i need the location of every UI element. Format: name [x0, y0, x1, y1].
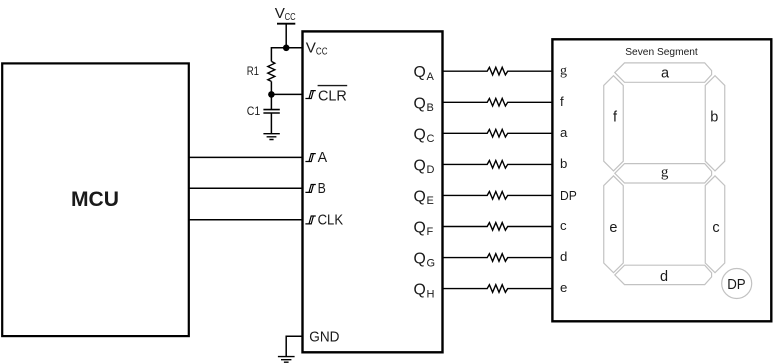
svg-text:CC: CC — [316, 46, 328, 58]
svg-text:B: B — [427, 102, 434, 114]
svg-text:Q: Q — [414, 95, 426, 112]
wire R1 to CLR junction — [270, 81, 272, 94]
resistor row 8 (QH to segment e) — [443, 285, 554, 293]
wire C1 to ground — [270, 113, 272, 134]
resistor row 5 (QE to segment DP) — [443, 192, 554, 200]
svg-text:Q: Q — [414, 282, 426, 299]
VCC supply symbol — [277, 23, 295, 25]
resistor row 3 (QC to segment a) — [443, 129, 554, 137]
resistor row 7 (QG to segment d) — [443, 254, 554, 262]
svg-text:g: g — [560, 64, 567, 79]
svg-text:Q: Q — [414, 188, 426, 205]
ground (U1 GND) — [278, 357, 295, 363]
pin symbol A (pulse) — [305, 154, 315, 162]
svg-text:f: f — [560, 94, 564, 109]
svg-text:Q: Q — [414, 251, 426, 268]
svg-text:C1: C1 — [247, 104, 261, 118]
svg-text:R1: R1 — [247, 66, 259, 78]
pin symbol CLR (pulse) — [305, 91, 315, 99]
wire MCU to CLK — [189, 219, 303, 221]
segment e shape — [604, 176, 624, 273]
wire VCC junction to R1 — [271, 48, 286, 62]
svg-text:A: A — [427, 71, 435, 83]
svg-text:g: g — [661, 165, 669, 181]
svg-text:d: d — [560, 249, 567, 264]
shift register U1 box — [303, 31, 443, 352]
svg-text:C: C — [427, 133, 435, 145]
svg-text:GND: GND — [309, 329, 339, 345]
resistor row 6 (QF to segment c) — [443, 223, 554, 231]
wire junction to C1 — [270, 94, 272, 109]
svg-text:F: F — [427, 226, 434, 238]
svg-text:Seven Segment: Seven Segment — [625, 47, 698, 58]
svg-text:a: a — [560, 125, 568, 140]
svg-text:CLR: CLR — [318, 87, 347, 104]
svg-text:e: e — [609, 220, 617, 236]
resistor row 4 (QD to segment b) — [443, 161, 554, 169]
svg-text:B: B — [318, 180, 326, 197]
pin symbol B (pulse) — [305, 185, 315, 193]
seven segment display box — [552, 39, 771, 321]
svg-text:a: a — [661, 66, 670, 82]
svg-text:Q: Q — [414, 64, 426, 81]
segment g shape — [615, 164, 712, 183]
svg-text:b: b — [560, 156, 567, 171]
capacitor C1 — [263, 110, 279, 113]
svg-text:CLK: CLK — [318, 211, 344, 228]
svg-text:E: E — [427, 195, 434, 207]
svg-text:G: G — [427, 257, 436, 269]
segment c shape — [705, 176, 725, 273]
wire junction to CLR pin — [271, 93, 303, 95]
svg-text:Q: Q — [414, 126, 426, 143]
svg-text:Q: Q — [414, 220, 426, 237]
wire MCU to B — [189, 187, 303, 189]
svg-text:H: H — [427, 288, 435, 300]
ground (C1) — [263, 134, 279, 140]
svg-text:DP: DP — [727, 276, 745, 293]
svg-text:c: c — [560, 218, 567, 233]
MCU block — [2, 63, 189, 336]
segment a shape — [615, 63, 712, 82]
segment f shape — [604, 76, 624, 171]
svg-text:A: A — [318, 149, 328, 166]
svg-text:D: D — [427, 164, 435, 176]
segment b shape — [705, 76, 725, 171]
junction node VCC — [283, 45, 290, 52]
svg-text:CC: CC — [285, 11, 296, 23]
resistor R1 — [268, 61, 275, 81]
junction node CLR — [268, 91, 275, 98]
wire GND pin to ground — [286, 336, 303, 356]
svg-text:Q: Q — [414, 157, 426, 174]
svg-text:d: d — [660, 269, 668, 285]
svg-text:DP: DP — [560, 188, 577, 203]
svg-text:MCU: MCU — [71, 188, 119, 211]
DP circle — [722, 269, 752, 299]
resistor row 2 (QB to segment f) — [443, 98, 554, 106]
pin symbol CLK (pulse) — [305, 216, 315, 224]
segment d shape — [615, 265, 712, 284]
svg-text:c: c — [712, 220, 719, 236]
wire MCU to A — [189, 156, 303, 158]
resistor row 1 (QA to segment g) — [443, 67, 554, 75]
wire VCC to U1 — [286, 47, 303, 49]
svg-text:e: e — [560, 280, 567, 295]
svg-text:b: b — [710, 110, 718, 126]
